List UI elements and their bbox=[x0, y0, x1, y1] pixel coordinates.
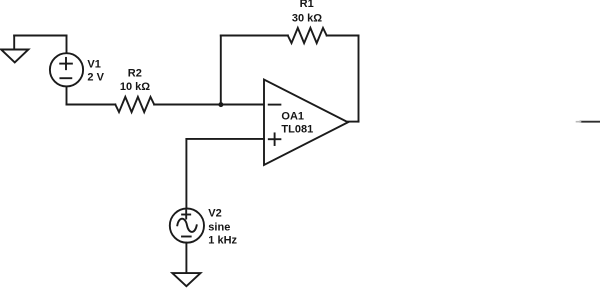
svg-text:10 kΩ: 10 kΩ bbox=[120, 81, 150, 93]
node junction bbox=[218, 102, 223, 107]
wire bbox=[186, 138, 264, 140]
svg-text:V2: V2 bbox=[208, 208, 221, 220]
wire bbox=[327, 35, 359, 37]
voltage source V2 bbox=[170, 209, 204, 243]
wire bbox=[66, 86, 68, 104]
wire bbox=[67, 104, 116, 106]
resistor R2 bbox=[115, 97, 154, 112]
wire bbox=[14, 35, 66, 37]
resistor R1 bbox=[288, 28, 327, 43]
wire bbox=[358, 36, 360, 122]
ground bbox=[1, 36, 28, 63]
label V1 2 V bbox=[87, 58, 104, 83]
svg-text:1 kHz: 1 kHz bbox=[208, 235, 237, 247]
svg-text:R1: R1 bbox=[300, 0, 314, 10]
svg-text:R2: R2 bbox=[128, 67, 142, 79]
wire bbox=[66, 36, 68, 54]
wire bbox=[348, 121, 359, 123]
op-amp OA1 bbox=[264, 80, 348, 166]
wire bbox=[220, 36, 222, 105]
label R1 30 kOhm bbox=[292, 0, 322, 24]
svg-text:sine: sine bbox=[208, 222, 230, 234]
voltage source V1 bbox=[50, 53, 83, 86]
svg-text:V1: V1 bbox=[87, 58, 100, 70]
wire bbox=[185, 243, 187, 274]
ground bbox=[172, 273, 200, 286]
wire bbox=[221, 35, 288, 37]
svg-text:TL081: TL081 bbox=[281, 124, 313, 136]
svg-text:OA1: OA1 bbox=[281, 111, 304, 123]
wire bbox=[154, 104, 264, 106]
label V2 sine 1 kHz bbox=[208, 208, 237, 247]
label OA1 TL081 bbox=[281, 111, 313, 136]
wire bbox=[185, 139, 187, 209]
svg-text:2 V: 2 V bbox=[87, 71, 104, 83]
label R2 10 kOhm bbox=[120, 67, 150, 93]
svg-text:30 kΩ: 30 kΩ bbox=[292, 12, 322, 24]
wire (cropped at right edge) bbox=[581, 121, 600, 123]
